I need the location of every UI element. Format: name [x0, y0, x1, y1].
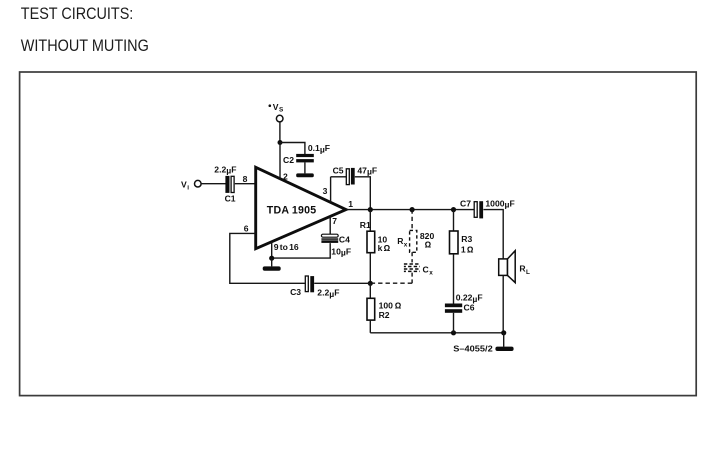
svg-text:C3: C3: [290, 287, 301, 297]
wire C2 to ground: [304, 162, 306, 173]
svg-text:S: S: [279, 107, 284, 114]
svg-text:V: V: [181, 179, 187, 189]
svg-text:R2: R2: [379, 310, 390, 320]
wire junction to R1: [369, 210, 371, 232]
svg-text:WITHOUT MUTING: WITHOUT MUTING: [21, 36, 149, 55]
svg-text:6: 6: [244, 223, 249, 233]
wire C6 to bottom rail: [453, 313, 455, 333]
svg-text:1: 1: [461, 244, 466, 254]
wire R1 to feedback junction: [369, 253, 371, 284]
svg-text:10µF: 10µF: [331, 246, 351, 257]
svg-text:R3: R3: [461, 234, 472, 244]
svg-text:x: x: [404, 241, 408, 248]
svg-text:C5: C5: [333, 165, 344, 175]
wire pin3 corner to C5: [331, 176, 347, 178]
input terminal Vi: [181, 179, 201, 191]
resistor R1 10k: [360, 220, 391, 253]
wire junction to ground: [271, 258, 273, 266]
svg-text:TDA 1905: TDA 1905: [267, 205, 317, 217]
svg-text:i: i: [187, 185, 189, 192]
svg-text:2.2µF: 2.2µF: [214, 164, 236, 175]
svg-text:k: k: [378, 243, 383, 253]
svg-text:C: C: [423, 264, 429, 274]
capacitor Cx (dashed): [404, 264, 433, 277]
wire feedback junction to R2: [369, 283, 371, 298]
supply terminal Vs: [269, 102, 285, 122]
ground below C2: [296, 173, 314, 177]
resistor Rx 820 ohm (dashed): [397, 230, 434, 252]
svg-text:Ω: Ω: [467, 244, 474, 254]
svg-text:C7: C7: [460, 198, 471, 208]
wire pin 9to16 down: [271, 242, 273, 258]
svg-text:C2: C2: [283, 155, 294, 165]
svg-text:47µF: 47µF: [357, 165, 377, 176]
svg-text:x: x: [429, 270, 433, 277]
svg-text:C4: C4: [339, 235, 350, 245]
svg-text:8: 8: [243, 174, 248, 184]
wire junction to C2: [280, 143, 305, 155]
wire speaker to bottom rail: [502, 275, 504, 332]
svg-text:7: 7: [332, 216, 337, 226]
svg-text:1: 1: [348, 199, 353, 209]
svg-text:S–4055/2: S–4055/2: [453, 344, 493, 353]
speaker RL: [499, 251, 530, 283]
svg-text:Ω: Ω: [384, 243, 391, 253]
node output junction C5/R1: [368, 207, 373, 212]
capacitor C3 2.2uF: [290, 276, 339, 299]
svg-text:1000µF: 1000µF: [485, 198, 514, 209]
wire Vs down to junction: [279, 122, 281, 142]
wire dashed Cx down: [411, 273, 413, 284]
wire dashed junction to Rx: [411, 210, 413, 231]
wire feedback junction to C3: [314, 282, 370, 284]
svg-text:100: 100: [379, 301, 394, 311]
svg-text:0.1µF: 0.1µF: [308, 143, 330, 154]
op-amp U1 TDA1905 triangle: [256, 167, 346, 248]
resistor R2 100 ohm: [367, 298, 402, 320]
wire dashed Rx to Cx: [411, 252, 413, 262]
svg-text:Ω: Ω: [425, 239, 432, 249]
svg-text:2: 2: [283, 171, 288, 181]
node C6 bottom junction: [451, 330, 456, 335]
figure border frame: [20, 72, 697, 396]
svg-text:2.2µF: 2.2µF: [317, 288, 339, 299]
svg-text:Ω: Ω: [395, 301, 402, 311]
svg-text:L: L: [526, 269, 530, 276]
wire C3 to pin 6: [230, 233, 305, 283]
ground below IC: [263, 266, 281, 270]
wire junction to pin 2: [279, 143, 281, 180]
wire C7 to speaker: [483, 210, 503, 259]
wire junction to R3: [453, 210, 455, 231]
wire C1 to pin 8: [235, 183, 256, 185]
wire Vi to C1: [201, 183, 225, 185]
svg-text:C1: C1: [225, 193, 236, 203]
resistor R3 1 ohm: [450, 231, 474, 254]
node output junction Rx: [410, 207, 415, 212]
wire dashed Cx to feedback junction: [372, 282, 413, 284]
capacitor C1 2.2uF: [214, 164, 236, 203]
capacitor C6 0.22uF: [445, 293, 483, 313]
wire pin 7 down to C4: [329, 217, 331, 235]
wire pin 3 up: [330, 177, 332, 203]
node output junction R3/C7: [451, 207, 456, 212]
svg-text:TEST CIRCUITS:: TEST CIRCUITS:: [21, 4, 134, 23]
ground bottom right: [495, 347, 513, 351]
capacitor C7 1000uF: [460, 198, 515, 218]
node feedback junction: [368, 281, 373, 286]
wire C4 to ground junction: [272, 243, 331, 258]
node ground junction below IC: [269, 256, 274, 261]
wire bottom ground rail: [370, 332, 503, 334]
wire output pin 1 main rail: [346, 209, 474, 211]
svg-text:V: V: [273, 102, 279, 112]
svg-text:3: 3: [323, 186, 328, 196]
node junction at Vs branch: [278, 140, 283, 145]
node speaker bottom junction: [501, 330, 506, 335]
wire R3 to C6: [453, 254, 455, 304]
capacitor C5 47uF: [333, 165, 378, 184]
wire junction to ground: [503, 333, 505, 347]
svg-text:C6: C6: [464, 302, 475, 312]
svg-text:9to16: 9to16: [274, 242, 299, 252]
capacitor C2 0.1uF: [283, 143, 330, 165]
capacitor C4 10uF: [321, 234, 351, 258]
svg-text:R1: R1: [360, 220, 371, 230]
wire R2 to bottom rail: [369, 320, 371, 333]
wire C5 to output branch: [355, 177, 371, 210]
